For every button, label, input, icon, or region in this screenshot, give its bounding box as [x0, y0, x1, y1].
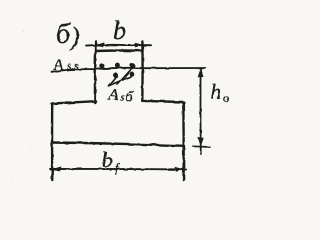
svg-text:б: б	[56, 19, 71, 50]
label Asb	[107, 86, 134, 105]
flange top edge right	[142, 101, 183, 102]
Asb leader to row1 dot c	[118, 68, 133, 85]
leader line from Ass to rebar and ho top extension	[52, 68, 206, 72]
paper speckles	[7, 17, 238, 195]
svg-text:): )	[69, 22, 80, 51]
svg-text:A: A	[107, 86, 119, 104]
ho bottom extension tick	[193, 145, 210, 148]
label ho	[211, 80, 230, 105]
svg-text:b: b	[113, 16, 126, 45]
figure label б)	[56, 19, 80, 51]
flange left edge (extension for bf)	[51, 104, 54, 180]
dimension ho bottom arrow	[198, 138, 204, 147]
dimension bf left arrow	[52, 166, 61, 171]
svg-text:h: h	[211, 80, 222, 104]
dimension bf line	[50, 168, 186, 171]
svg-text:b: b	[102, 148, 113, 172]
dimension b left arrow	[96, 42, 105, 47]
rebar dot row1 a	[99, 63, 104, 68]
rebar dot row1 b	[115, 63, 120, 68]
web left edge (extension line for b)	[94, 41, 97, 103]
rebar dot row2 a	[113, 73, 118, 78]
svg-text:o: o	[223, 93, 229, 105]
paper background	[0, 0, 244, 207]
flange top edge left	[52, 101, 96, 103]
flange right edge (extension for bf)	[182, 102, 185, 180]
label Ass	[53, 57, 79, 74]
Asb leader to row2 dot b	[109, 77, 131, 86]
flange bottom edge	[52, 143, 184, 146]
dimension ho line	[199, 68, 201, 154]
rebar dot row1 c	[130, 63, 135, 68]
web right edge (extension line for b)	[141, 42, 144, 101]
dimension bf value label	[102, 148, 120, 175]
rebar dot row2 b	[129, 72, 134, 77]
dimension b right arrow	[134, 42, 143, 47]
web top edge	[96, 49, 143, 52]
Asb leader to row2 dot a	[109, 78, 116, 86]
dimension ho top arrow	[198, 68, 204, 77]
dimension bf right arrow	[175, 167, 184, 172]
dimension b line	[86, 44, 151, 47]
